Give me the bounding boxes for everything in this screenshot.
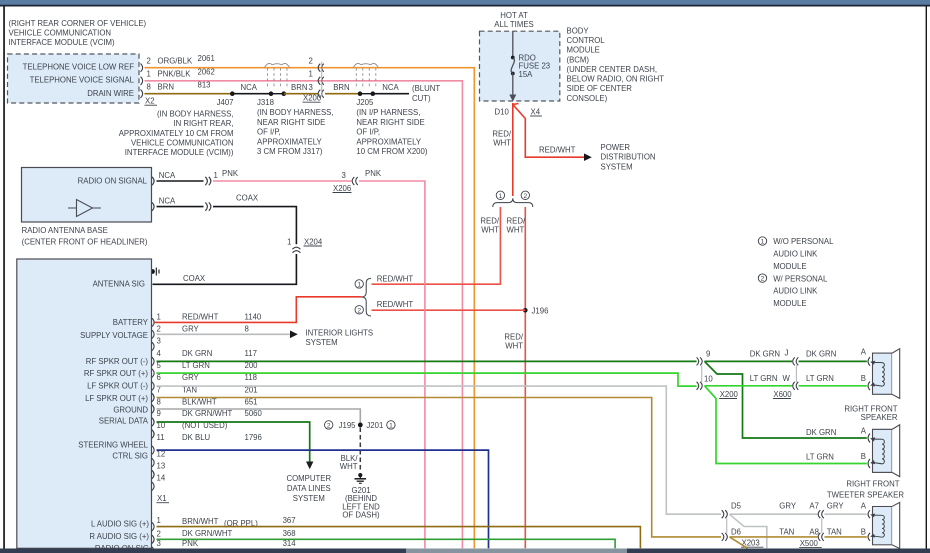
svg-text:B: B (861, 374, 866, 383)
svg-text:367: 367 (283, 516, 296, 525)
svg-text:1: 1 (308, 70, 312, 79)
svg-text:MODULE: MODULE (773, 262, 806, 271)
svg-text:D5: D5 (731, 502, 742, 511)
svg-text:14: 14 (157, 473, 166, 482)
svg-text:A: A (861, 502, 867, 511)
svg-text:SPEAKER: SPEAKER (861, 413, 898, 422)
svg-text:APPROXIMATELY: APPROXIMATELY (356, 137, 422, 146)
svg-text:WHT: WHT (340, 462, 358, 471)
wire GRY D5 to X500 (730, 513, 818, 515)
svg-text:STEERING WHEEL: STEERING WHEEL (78, 440, 148, 449)
speaker right front 2 (spkr2) (868, 425, 900, 477)
pin bracket coax out (152, 202, 154, 210)
svg-text:BLK/WHT: BLK/WHT (182, 397, 217, 406)
svg-text:2: 2 (523, 193, 527, 200)
svg-text:TELEPHONE VOICE SIGNAL: TELEPHONE VOICE SIGNAL (30, 76, 135, 85)
svg-text:RADIO ANTENNA BASE: RADIO ANTENNA BASE (22, 226, 108, 235)
svg-text:TAN: TAN (779, 528, 794, 537)
break arcs coax (205, 202, 211, 210)
svg-text:VEHICLE COMMUNICATION: VEHICLE COMMUNICATION (131, 139, 234, 148)
svg-text:1: 1 (157, 312, 161, 321)
svg-text:J318: J318 (257, 98, 274, 107)
speaker right front (spkr1) (868, 349, 900, 399)
svg-text:GRY: GRY (779, 502, 797, 511)
svg-text:RF SPKR OUT (-): RF SPKR OUT (-) (86, 357, 149, 366)
pin bracket radio-on (152, 177, 154, 185)
svg-text:15A: 15A (519, 70, 534, 79)
svg-text:SYSTEM: SYSTEM (306, 338, 338, 347)
svg-text:B: B (861, 528, 866, 537)
svg-text:BRN: BRN (291, 83, 307, 92)
svg-text:3 CM FROM J317): 3 CM FROM J317) (257, 147, 323, 156)
svg-text:DK GRN: DK GRN (806, 350, 836, 359)
svg-text:SUPPLY VOLTAGE: SUPPLY VOLTAGE (80, 331, 148, 340)
svg-text:POWER: POWER (601, 143, 631, 152)
svg-text:DK GRN: DK GRN (750, 350, 780, 359)
svg-text:X2: X2 (145, 97, 155, 106)
wire RED/WHT battery feed from radio (154, 297, 362, 323)
wire DK GRN RF- (157, 360, 697, 362)
svg-text:RIGHT FRONT: RIGHT FRONT (844, 404, 897, 413)
svg-text:GROUND: GROUND (113, 405, 148, 414)
svg-text:3: 3 (157, 539, 161, 548)
svg-text:2: 2 (308, 56, 312, 65)
wire BLK/WHT dashed to ground (359, 428, 361, 471)
svg-text:J195: J195 (339, 421, 357, 430)
svg-text:AUDIO LINK: AUDIO LINK (773, 287, 818, 296)
svg-text:1: 1 (357, 281, 361, 288)
svg-text:CTRL SIG: CTRL SIG (112, 451, 148, 460)
svg-text:BATTERY: BATTERY (113, 318, 149, 327)
module radio box (17, 259, 152, 548)
svg-text:ANTENNA SIG: ANTENNA SIG (93, 279, 145, 288)
svg-text:DATA LINES: DATA LINES (287, 484, 331, 493)
svg-text:LF SPKR OUT (-): LF SPKR OUT (-) (87, 381, 148, 390)
svg-text:CUT): CUT) (412, 94, 431, 103)
svg-text:ALL TIMES: ALL TIMES (494, 20, 533, 29)
wire into fuse (512, 31, 514, 57)
svg-text:ORG/BLK: ORG/BLK (158, 56, 193, 65)
pin 8 bracket (141, 90, 143, 98)
J318 inline connector dashed symbol (265, 63, 290, 88)
svg-text:PNK: PNK (365, 169, 382, 178)
svg-text:INTERIOR LIGHTS: INTERIOR LIGHTS (306, 328, 374, 337)
circled 1 (top split) (496, 191, 504, 199)
speaker tweeter (spkr3) (868, 502, 900, 548)
svg-text:NEAR RIGHT SIDE: NEAR RIGHT SIDE (257, 118, 325, 127)
svg-text:A: A (861, 427, 867, 436)
wire GRY supply voltage with arrow (157, 333, 291, 335)
svg-text:RED/WHT: RED/WHT (377, 275, 414, 284)
wire BRN X200 to J205 (325, 93, 360, 95)
wire LT GRN X600 to speaker1 B (799, 385, 867, 387)
wire COAX to X204 (213, 207, 296, 245)
svg-text:10 CM FROM X200): 10 CM FROM X200) (356, 147, 427, 156)
svg-text:(RIGHT REAR CORNER OF VEHICLE): (RIGHT REAR CORNER OF VEHICLE) (9, 19, 147, 28)
svg-text:1796: 1796 (245, 433, 262, 442)
circled 2 (top split) (521, 191, 529, 199)
svg-text:CONTROL: CONTROL (567, 36, 606, 45)
svg-text:RED/WHT: RED/WHT (539, 146, 576, 155)
wire RED/WHT variant1 vertical (372, 207, 501, 284)
wire DK GRN to X600 (705, 360, 793, 362)
svg-text:WHT: WHT (493, 139, 511, 148)
svg-text:NEAR RIGHT SIDE: NEAR RIGHT SIDE (356, 118, 424, 127)
circled 2 (merge) (355, 306, 363, 314)
svg-text:W: W (783, 374, 791, 383)
svg-text:DK BLU: DK BLU (182, 433, 211, 442)
svg-text:VEHICLE COMMUNICATION: VEHICLE COMMUNICATION (9, 29, 112, 38)
svg-text:RED/: RED/ (480, 217, 499, 226)
split brace under circles (493, 198, 533, 207)
X200 connector link line (321, 62, 323, 97)
wire BLK/WHT ground (157, 409, 361, 423)
svg-text:8: 8 (245, 324, 249, 333)
svg-text:1: 1 (761, 239, 765, 246)
svg-text:DK GRN/WHT: DK GRN/WHT (182, 529, 232, 538)
wire DK GRN/WHT R audio (157, 539, 616, 548)
wire PNK radio-on to X206 (213, 180, 352, 182)
svg-text:1: 1 (287, 237, 291, 246)
legend circled 2 (758, 274, 766, 282)
svg-text:9: 9 (157, 409, 161, 418)
svg-text:RED/: RED/ (492, 129, 511, 138)
wire RED/WHT main vertical from D10 (512, 103, 514, 196)
svg-text:3: 3 (157, 337, 161, 346)
svg-text:314: 314 (283, 539, 297, 548)
module U-VCIM dashed box (8, 54, 140, 103)
svg-text:TWEETER SPEAKER: TWEETER SPEAKER (827, 490, 904, 499)
wire DK GRN X600 to speaker1 A (799, 360, 867, 362)
svg-text:COAX: COAX (236, 194, 259, 203)
junction J196 (523, 308, 528, 313)
svg-text:PNK: PNK (222, 169, 239, 178)
svg-text:RF SPKR OUT (+): RF SPKR OUT (+) (84, 369, 149, 378)
svg-text:BRN: BRN (333, 83, 349, 92)
svg-text:SYSTEM: SYSTEM (601, 162, 633, 171)
wire GRY branch below X203 (730, 514, 767, 548)
svg-text:2: 2 (157, 530, 161, 539)
svg-text:J407: J407 (217, 98, 234, 107)
svg-text:8: 8 (147, 83, 151, 92)
svg-text:10: 10 (704, 375, 713, 384)
wire LT GRN branch to speaker2 (705, 386, 867, 464)
svg-text:(IN BODY HARNESS,: (IN BODY HARNESS, (257, 108, 334, 117)
wire LT GRN to X600 (705, 385, 793, 387)
svg-text:OF I/P,: OF I/P, (356, 128, 380, 137)
module radio antenna base box (22, 168, 152, 223)
svg-text:2062: 2062 (198, 67, 215, 76)
svg-text:J205: J205 (356, 98, 374, 107)
svg-text:RADIO ON SIGNAL: RADIO ON SIGNAL (78, 177, 148, 186)
bottom scrollbar thumb (406, 549, 627, 553)
wire PNK X206 down to bottom (359, 181, 425, 548)
svg-text:INTERFACE MODULE (VCIM): INTERFACE MODULE (VCIM) (9, 38, 116, 47)
svg-text:X200: X200 (303, 94, 322, 103)
wire BRN J318 to X200 (284, 93, 318, 95)
svg-text:APPROXIMATELY: APPROXIMATELY (257, 137, 323, 146)
pin 1 bracket (141, 77, 143, 85)
X500 connector link (821, 518, 823, 533)
svg-text:368: 368 (283, 529, 296, 538)
svg-text:W/ PERSONAL: W/ PERSONAL (773, 274, 828, 283)
svg-text:(UNDER CENTER DASH,: (UNDER CENTER DASH, (567, 65, 658, 74)
svg-text:2: 2 (357, 307, 361, 314)
svg-text:APPROXIMATELY 10 CM FROM: APPROXIMATELY 10 CM FROM (119, 129, 234, 138)
wire BRN to J407 (145, 93, 233, 95)
svg-text:DK GRN/WHT: DK GRN/WHT (182, 409, 232, 418)
svg-text:1: 1 (147, 70, 151, 79)
circled 1 (merge) (355, 280, 363, 288)
svg-text:HOT AT: HOT AT (500, 11, 528, 20)
junction J205 dots (358, 91, 363, 96)
svg-text:W/O PERSONAL: W/O PERSONAL (773, 237, 834, 246)
svg-text:CONSOLE): CONSOLE) (567, 94, 608, 103)
svg-text:WHT: WHT (507, 226, 525, 235)
svg-text:DK GRN: DK GRN (182, 349, 212, 358)
svg-text:X1: X1 (157, 494, 167, 503)
svg-text:X4: X4 (531, 107, 541, 116)
svg-text:NCA: NCA (241, 83, 258, 92)
fuse block dashed box (480, 31, 560, 101)
wire DK GRN/WHT serial data (157, 422, 310, 463)
J205 inline connector dashed symbol (353, 63, 378, 88)
merge brace at radio battery wire (362, 278, 371, 316)
svg-text:L AUDIO SIG (+): L AUDIO SIG (+) (91, 520, 149, 529)
radio pin brackets X1 (152, 318, 154, 490)
svg-text:13: 13 (157, 461, 166, 470)
svg-text:BRN: BRN (158, 83, 174, 92)
wire ORG/BLK horizontal+vertical (145, 68, 475, 549)
svg-text:X204: X204 (304, 237, 323, 246)
svg-text:118: 118 (245, 373, 257, 382)
svg-text:B: B (861, 452, 866, 461)
junction J318 dots (269, 91, 274, 96)
svg-text:651: 651 (245, 397, 258, 406)
svg-text:(CENTER FRONT OF HEADLINER): (CENTER FRONT OF HEADLINER) (22, 238, 148, 247)
svg-text:X500: X500 (800, 539, 819, 548)
wire DK BLU steering wheel (157, 450, 489, 548)
junction J195/J201 (358, 423, 363, 428)
svg-text:1: 1 (214, 171, 218, 180)
wire TAN LF+ (157, 398, 722, 537)
svg-text:A8: A8 (809, 528, 819, 537)
svg-text:BODY: BODY (567, 26, 590, 35)
svg-text:2: 2 (157, 324, 161, 333)
svg-text:DK GRN: DK GRN (806, 428, 836, 437)
svg-text:DISTRIBUTION: DISTRIBUTION (601, 153, 656, 162)
legend circled 1 (758, 237, 766, 245)
svg-text:X600: X600 (773, 390, 792, 399)
svg-text:NCA: NCA (382, 83, 399, 92)
X200 connector link (701, 366, 703, 383)
wire BRN/WHT L audio (157, 527, 641, 549)
fuse RDO FUSE 23 15A (511, 56, 515, 60)
wire DK GRN branch to speaker2 (705, 361, 867, 438)
wire TAN X500 to tweeter B (825, 536, 867, 538)
svg-text:SIDE OF CENTER: SIDE OF CENTER (567, 84, 633, 93)
svg-text:COMPUTER: COMPUTER (286, 474, 331, 483)
wire RED/WHT variant2 vertical (524, 207, 526, 548)
wire NCA J407 to J318 (232, 93, 271, 95)
wire TAN D6 to X500 (730, 536, 818, 538)
wire GRY LF- (157, 386, 722, 514)
svg-text:11: 11 (157, 433, 165, 442)
svg-text:(IN BODY HARNESS,: (IN BODY HARNESS, (157, 109, 234, 118)
svg-text:WHT: WHT (481, 226, 499, 235)
svg-text:TELEPHONE VOICE LOW REF: TELEPHONE VOICE LOW REF (23, 63, 135, 72)
svg-text:1: 1 (157, 516, 161, 525)
svg-text:DRAIN WIRE: DRAIN WIRE (87, 89, 134, 98)
svg-text:NCA: NCA (159, 171, 176, 180)
svg-text:J196: J196 (532, 307, 549, 316)
svg-text:3: 3 (341, 171, 345, 180)
wire PNK/BLK horizontal+vertical (145, 81, 463, 549)
svg-text:IN RIGHT REAR,: IN RIGHT REAR, (173, 119, 233, 128)
svg-text:RED/: RED/ (507, 217, 526, 226)
arrow to power distribution (584, 153, 592, 161)
X600 connector link (795, 366, 797, 383)
svg-text:D6: D6 (731, 528, 741, 537)
svg-text:PNK/BLK: PNK/BLK (158, 70, 192, 79)
svg-text:COAX: COAX (183, 274, 206, 283)
wire LT GRN RF+ (157, 373, 697, 386)
svg-text:X200: X200 (720, 390, 739, 399)
svg-text:RED/WHT: RED/WHT (182, 312, 219, 321)
svg-text:J: J (785, 349, 789, 358)
ground G201 symbol (358, 473, 362, 477)
svg-text:AUDIO LINK: AUDIO LINK (773, 250, 818, 259)
svg-text:MODULE: MODULE (773, 299, 806, 308)
svg-text:1140: 1140 (245, 312, 262, 321)
svg-text:8: 8 (157, 397, 161, 406)
svg-text:GRY: GRY (827, 502, 845, 511)
svg-text:OF I/P,: OF I/P, (257, 128, 281, 137)
junction J407 (230, 91, 235, 96)
svg-text:1: 1 (389, 422, 393, 429)
svg-text:LT GRN: LT GRN (806, 374, 834, 383)
bottom scrollbar track (0, 549, 930, 553)
svg-text:GRY: GRY (182, 373, 200, 382)
wire RED/WHT branch to power distribution (513, 104, 585, 158)
svg-text:TAN: TAN (827, 528, 842, 537)
wire TAN branch below X203 (730, 537, 748, 548)
wire COAX X204 to radio (153, 254, 297, 284)
svg-text:2: 2 (761, 276, 765, 283)
svg-text:5060: 5060 (245, 409, 263, 418)
svg-text:(BCM): (BCM) (567, 55, 590, 64)
antenna amplifier symbol (68, 207, 101, 209)
left page border (3, 6, 5, 549)
svg-text:BRN/WHT: BRN/WHT (182, 517, 219, 526)
wire NCA radio-on (157, 180, 204, 182)
svg-text:PNK: PNK (182, 539, 199, 548)
svg-text:813: 813 (198, 81, 211, 90)
svg-text:RIGHT FRONT: RIGHT FRONT (846, 479, 899, 488)
X203 connector link (726, 518, 728, 533)
svg-text:SERIAL DATA: SERIAL DATA (99, 417, 149, 426)
radio antenna pin symbol (150, 269, 155, 274)
wire NCA blunt cut (373, 93, 409, 95)
svg-text:J201: J201 (366, 421, 383, 430)
svg-text:SYSTEM: SYSTEM (293, 494, 325, 503)
svg-text:LT GRN: LT GRN (806, 452, 834, 461)
svg-text:2061: 2061 (198, 54, 215, 63)
svg-text:LF SPKR OUT (+): LF SPKR OUT (+) (85, 394, 148, 403)
svg-text:1: 1 (499, 193, 503, 200)
svg-text:GRY: GRY (182, 324, 200, 333)
svg-text:117: 117 (245, 349, 257, 358)
svg-text:BELOW RADIO, ON RIGHT: BELOW RADIO, ON RIGHT (567, 75, 665, 84)
radio X2 pin brackets (152, 522, 154, 553)
top window bar (0, 0, 930, 5)
right page border (926, 6, 927, 549)
pin 2 bracket (141, 64, 143, 72)
svg-text:3: 3 (308, 83, 312, 92)
wire fuse to D10 with arrow (512, 74, 514, 97)
svg-text:OF DASH): OF DASH) (342, 511, 380, 520)
svg-text:6: 6 (157, 373, 161, 382)
svg-text:LT GRN: LT GRN (750, 374, 778, 383)
svg-text:2: 2 (147, 56, 151, 65)
svg-text:WHT: WHT (505, 342, 523, 351)
wire RED/WHT variant2 horizontal to J196 (372, 309, 526, 311)
svg-text:R AUDIO SIG (+): R AUDIO SIG (+) (89, 532, 149, 541)
svg-text:(IN I/P HARNESS,: (IN I/P HARNESS, (356, 108, 420, 117)
svg-text:2: 2 (327, 422, 331, 429)
wire GRY X500 to tweeter A (825, 513, 867, 515)
svg-text:9: 9 (706, 350, 710, 359)
svg-text:RED/WHT: RED/WHT (377, 300, 414, 309)
svg-text:MODULE: MODULE (567, 46, 600, 55)
svg-text:NCA: NCA (159, 196, 176, 205)
svg-text:RED/: RED/ (504, 332, 523, 341)
svg-text:A: A (861, 348, 867, 357)
svg-text:D10: D10 (495, 107, 510, 116)
svg-text:(BLUNT: (BLUNT (412, 84, 440, 93)
svg-text:A7: A7 (809, 502, 819, 511)
svg-text:INTERFACE MODULE (VCIM)): INTERFACE MODULE (VCIM)) (125, 148, 234, 157)
svg-text:4: 4 (157, 349, 162, 358)
wire NCA coax row (157, 206, 204, 208)
svg-text:X206: X206 (333, 184, 351, 193)
